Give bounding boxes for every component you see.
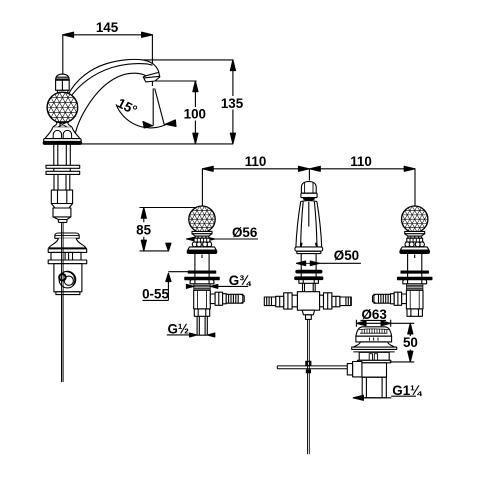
dimension 135 (height) xyxy=(144,60,244,144)
label G1 1/4 tailpipe xyxy=(353,383,423,401)
center spout base ring xyxy=(295,247,323,251)
svg-text:G1¼: G1¼ xyxy=(392,383,423,398)
coupling nut xyxy=(53,208,71,217)
svg-text:135: 135 xyxy=(221,96,244,111)
dimension 110 + 110 (hole spacing) xyxy=(202,154,415,209)
angle 15 deg xyxy=(115,88,176,128)
waste tailpipe xyxy=(362,377,386,398)
deck reference line xyxy=(80,143,233,145)
svg-text:100: 100 xyxy=(184,106,206,121)
svg-text:G¾: G¾ xyxy=(229,273,252,288)
right side valve (hot), mirrored xyxy=(373,206,432,316)
rod over body xyxy=(62,233,64,382)
svg-text:G½: G½ xyxy=(168,321,190,336)
waste plug (front) xyxy=(356,327,392,336)
washer xyxy=(46,165,80,168)
waste flange 1 (side) xyxy=(48,249,86,253)
center T body xyxy=(297,292,319,311)
center pull rod xyxy=(308,319,310,454)
T left arm xyxy=(292,295,298,307)
faucet top knob xyxy=(56,74,70,93)
faucet crystal ball handle xyxy=(47,92,78,123)
waste flange 1 xyxy=(352,347,397,349)
spout aerator lines xyxy=(144,72,160,78)
locknut washer xyxy=(46,171,80,174)
svg-text:110: 110 xyxy=(245,154,267,169)
left side valve (cold) xyxy=(185,206,244,316)
escutcheon plates xyxy=(296,270,322,273)
label G1/2 connection xyxy=(167,321,215,337)
faucet waist below ball xyxy=(53,122,72,127)
svg-text:145: 145 xyxy=(96,20,119,35)
waste body (front) xyxy=(362,363,387,377)
waste plug rim xyxy=(356,336,392,342)
hex nut xyxy=(51,190,72,203)
waste flange 2 (side) xyxy=(48,260,86,264)
svg-text:Ø50: Ø50 xyxy=(334,248,359,263)
center spout aerator band (front) xyxy=(301,193,317,197)
waste mid section (side) xyxy=(51,252,81,260)
waste skirt (side) xyxy=(49,238,86,248)
faucet base skirt with arches xyxy=(45,127,80,139)
waste body bottom (side) xyxy=(56,292,80,295)
left valve outlet pipe G1/2 xyxy=(197,316,207,335)
faucet base plinth xyxy=(44,139,81,142)
spout inner contour line xyxy=(69,64,153,99)
center spout tapering body (front) xyxy=(296,201,322,247)
faucet spout body xyxy=(60,59,160,136)
dimension 0-55 (deck thickness range) xyxy=(142,243,189,301)
label G3/4 thread xyxy=(186,273,252,288)
label diameter 50 xyxy=(297,248,361,265)
waste body with pivot (side) xyxy=(54,264,82,292)
dimension 50 (waste height) xyxy=(390,323,418,362)
svg-text:Ø63: Ø63 xyxy=(362,307,387,322)
waste skirt (front) xyxy=(353,342,394,347)
svg-text:110: 110 xyxy=(350,154,372,169)
shank continues xyxy=(54,174,70,190)
T right arm xyxy=(320,295,324,307)
center shank lower xyxy=(303,283,316,291)
center shank between base and escutcheon xyxy=(301,254,316,271)
svg-text:50: 50 xyxy=(403,335,418,350)
dimension 145 (spout reach) xyxy=(63,20,153,86)
label diameter 56 xyxy=(186,225,258,241)
svg-text:0-55: 0-55 xyxy=(142,286,169,301)
pull rod (side view) xyxy=(62,222,64,382)
svg-text:Ø56: Ø56 xyxy=(232,225,257,240)
T bottom tail xyxy=(302,310,315,315)
label diameter 63 xyxy=(356,307,414,327)
horizontal lever to waste xyxy=(277,366,347,369)
threaded shank below deck xyxy=(54,144,71,165)
center spout outlet cap (front) xyxy=(301,182,316,194)
dimension 85 (handle height) xyxy=(136,208,201,251)
waste stuffing box (lever socket) xyxy=(353,362,362,377)
svg-text:85: 85 xyxy=(136,223,151,238)
center hex nut xyxy=(299,280,319,284)
waste slotted band xyxy=(359,352,389,360)
pull rod clamp xyxy=(306,361,311,365)
waste plug disc (side) xyxy=(55,233,79,238)
waste flange 2 xyxy=(358,360,391,363)
dimension 100 (spout height) xyxy=(153,81,206,144)
